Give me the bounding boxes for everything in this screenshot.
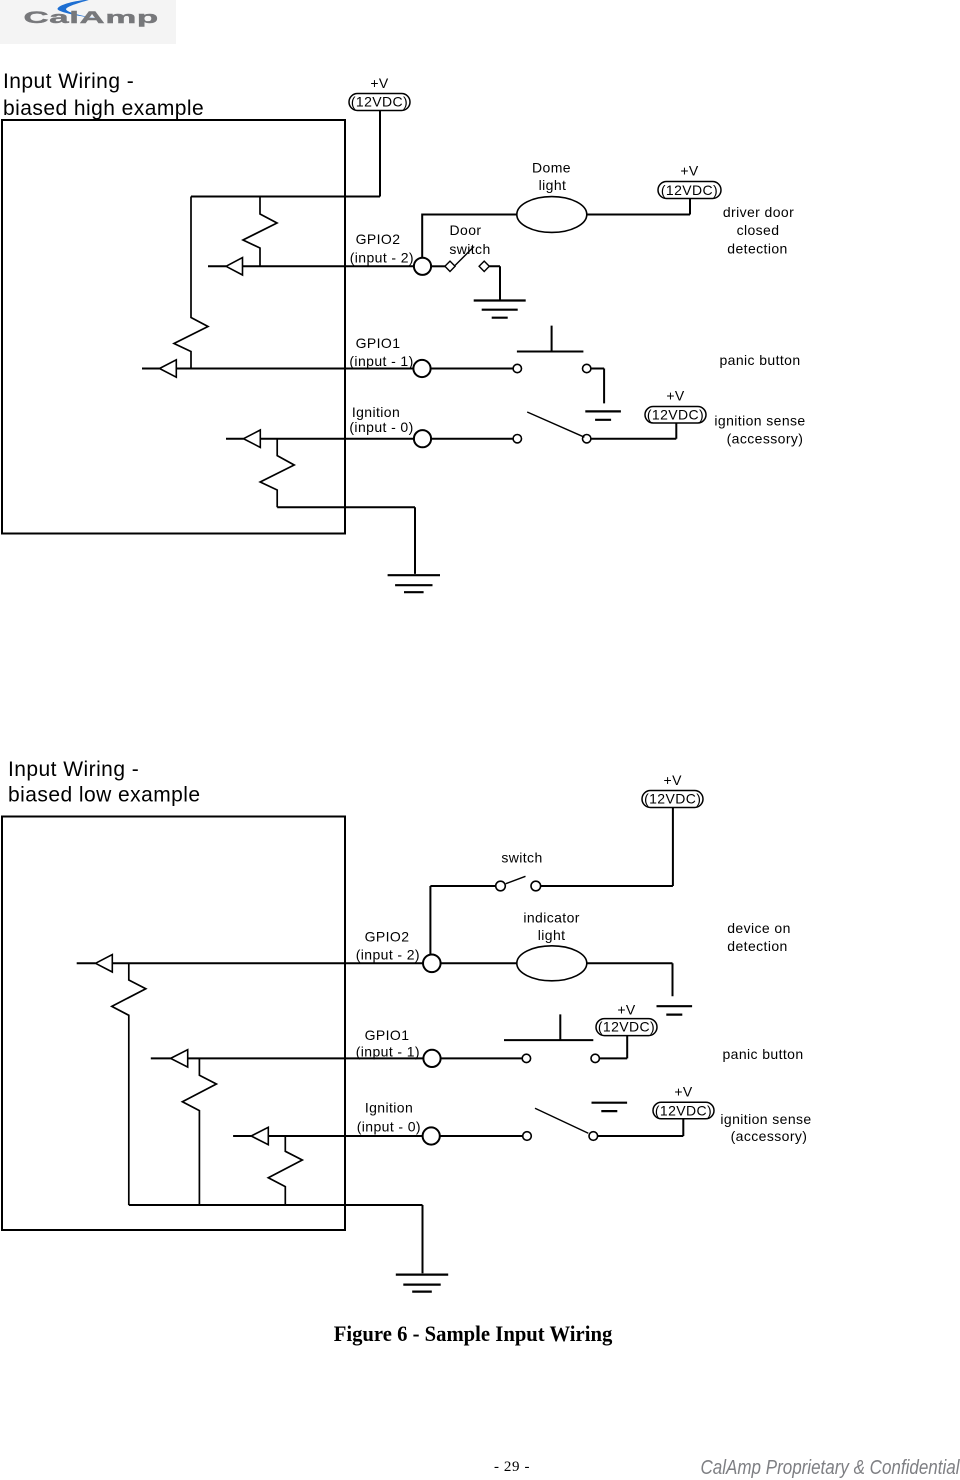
svg-text:biased high example: biased high example — [3, 97, 204, 120]
svg-text:(input - 2): (input - 2) — [350, 250, 414, 266]
svg-text:+V: +V — [664, 772, 683, 788]
svg-text:GPIO1: GPIO1 — [356, 335, 401, 351]
svg-text:Dome: Dome — [532, 160, 571, 176]
svg-text:GPIO2: GPIO2 — [356, 231, 401, 247]
svg-text:light: light — [539, 177, 567, 193]
svg-text:+V: +V — [370, 75, 389, 91]
svg-text:CalAmp: CalAmp — [24, 7, 159, 26]
svg-text:+V: +V — [617, 1002, 636, 1018]
svg-text:(input - 0): (input - 0) — [357, 1118, 421, 1134]
svg-text:Ignition: Ignition — [352, 404, 400, 420]
svg-text:switch: switch — [449, 241, 490, 257]
svg-text:driver door: driver door — [723, 204, 794, 220]
svg-text:device on: device on — [727, 920, 791, 936]
svg-text:indicator: indicator — [523, 910, 580, 926]
svg-text:(12VDC): (12VDC) — [644, 791, 701, 807]
svg-text:+V: +V — [674, 1084, 693, 1100]
svg-text:switch: switch — [501, 850, 542, 866]
svg-text:(accessory): (accessory) — [731, 1128, 808, 1144]
svg-text:biased low example: biased low example — [8, 784, 201, 807]
svg-text:(input - 1): (input - 1) — [349, 353, 413, 369]
svg-text:Door: Door — [450, 222, 482, 238]
svg-text:detection: detection — [727, 938, 787, 954]
svg-text:(12VDC): (12VDC) — [598, 1019, 655, 1035]
svg-text:(12VDC): (12VDC) — [661, 182, 718, 198]
svg-text:- 29 -: - 29 - — [494, 1459, 530, 1475]
svg-text:panic button: panic button — [719, 352, 800, 368]
svg-text:GPIO1: GPIO1 — [365, 1027, 410, 1043]
svg-text:(12VDC): (12VDC) — [647, 406, 704, 422]
svg-text:closed: closed — [737, 222, 780, 238]
svg-text:Input Wiring -: Input Wiring - — [8, 758, 139, 781]
svg-text:ignition sense: ignition sense — [714, 412, 805, 428]
svg-text:(accessory): (accessory) — [727, 430, 804, 446]
svg-text:+V: +V — [666, 388, 685, 404]
svg-text:ignition sense: ignition sense — [720, 1111, 811, 1127]
svg-text:(input - 0): (input - 0) — [349, 419, 413, 435]
svg-text:panic button: panic button — [722, 1046, 803, 1062]
svg-text:Input Wiring -: Input Wiring - — [3, 70, 134, 93]
svg-text:+V: +V — [680, 163, 699, 179]
svg-text:Ignition: Ignition — [365, 1099, 413, 1115]
svg-text:(input - 1): (input - 1) — [356, 1043, 420, 1059]
svg-text:(12VDC): (12VDC) — [655, 1102, 712, 1118]
svg-text:light: light — [538, 927, 566, 943]
svg-text:detection: detection — [727, 240, 787, 256]
svg-text:Figure 6 - Sample Input Wiring: Figure 6 - Sample Input Wiring — [334, 1321, 613, 1346]
svg-text:CalAmp Proprietary & Confident: CalAmp Proprietary & Confidential — [701, 1456, 960, 1479]
svg-text:(input - 2): (input - 2) — [356, 947, 420, 963]
svg-text:GPIO2: GPIO2 — [365, 929, 410, 945]
svg-text:(12VDC): (12VDC) — [351, 94, 408, 110]
